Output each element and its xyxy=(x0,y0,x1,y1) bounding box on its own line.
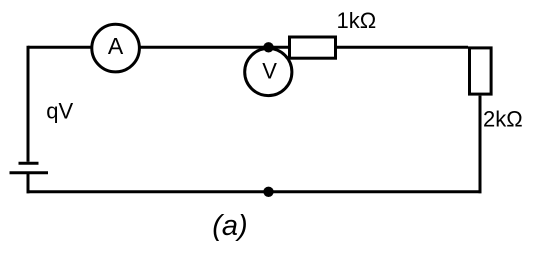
svg-text:V: V xyxy=(262,59,277,84)
svg-text:qV: qV xyxy=(46,99,73,124)
svg-text:2kΩ: 2kΩ xyxy=(483,107,523,132)
svg-text:A: A xyxy=(108,33,124,59)
svg-text:1kΩ: 1kΩ xyxy=(337,8,377,33)
svg-text:(a): (a) xyxy=(212,210,247,242)
